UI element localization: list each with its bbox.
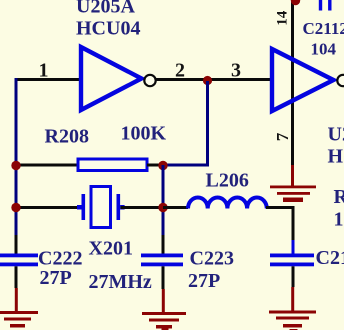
capacitor C222 plates — [0, 254, 38, 258]
ground under C222 — [0, 311, 38, 328]
junction dot node A row1 — [11, 161, 20, 170]
wire R208 left lead — [16, 164, 78, 167]
capacitor C223 plates — [141, 254, 183, 258]
inverter U205A output bubble — [144, 75, 155, 86]
ground pin7 — [270, 186, 316, 203]
svg-text:C212: C212 — [316, 247, 344, 269]
ground stem pin7 — [291, 165, 294, 186]
wire crystal right lead — [121, 206, 164, 209]
svg-text:R2: R2 — [334, 186, 344, 208]
svg-text:HCU04: HCU04 — [76, 18, 140, 40]
wire output node B horizontal — [156, 78, 272, 81]
ground under C212 — [269, 311, 316, 330]
wire C222 bottom lead — [15, 266, 18, 288]
svg-text:L206: L206 — [206, 170, 249, 192]
svg-text:C2112: C2112 — [303, 19, 344, 38]
svg-text:U205A: U205A — [76, 0, 135, 18]
svg-text:HCU04: HCU04 — [328, 146, 344, 168]
op-amp U205B inverter triangle — [272, 49, 334, 111]
svg-text:27MHz: 27MHz — [89, 271, 152, 293]
wire node B vertical jog — [163, 81, 208, 165]
svg-text:10: 10 — [334, 209, 344, 231]
resistor R208 body — [78, 159, 147, 171]
svg-text:104: 104 — [311, 40, 337, 59]
wire C223 bottom lead — [162, 266, 165, 289]
svg-text:27P: 27P — [188, 270, 220, 292]
crystal X201 body — [91, 187, 111, 228]
op-amp U205A inverter triangle — [81, 47, 142, 110]
svg-text:27P: 27P — [40, 267, 72, 289]
ground under C223 — [142, 312, 186, 330]
crystal X201 right plate — [117, 194, 121, 220]
junction dot node A row2 — [11, 203, 20, 212]
inverter U205B output bubble partial — [337, 75, 344, 86]
svg-text:C223: C223 — [190, 248, 234, 270]
capacitor C211 plates top — [319, 0, 322, 11]
junction dot node B row2 — [158, 203, 167, 212]
wire crystal left lead — [16, 206, 81, 209]
svg-text:U205B: U205B — [328, 124, 344, 146]
wire R208 right lead — [147, 164, 163, 167]
svg-text:100K: 100K — [121, 123, 167, 145]
svg-text:7: 7 — [273, 132, 292, 141]
wire inductor right lead — [266, 208, 295, 241]
ground stem C223 — [162, 289, 165, 312]
wire C212 top lead blue — [292, 240, 295, 254]
ground stem C212 — [291, 287, 294, 311]
junction dot node B row1 — [158, 161, 167, 170]
svg-text:14: 14 — [275, 10, 291, 26]
inductor L206 — [188, 198, 267, 209]
wire C212 bottom lead — [292, 266, 295, 287]
wire mid rail vertical node B — [162, 165, 165, 235]
svg-text:X201: X201 — [89, 238, 133, 260]
node B junction dot — [203, 76, 212, 85]
crystal X201 left plate — [82, 194, 86, 220]
junction dot top — [291, 0, 300, 5]
wire left rail vertical node A — [15, 78, 18, 235]
ground stem C222 — [15, 288, 18, 311]
svg-text:1: 1 — [39, 60, 49, 82]
wire inductor left lead — [163, 206, 188, 209]
wire pin1 horizontal — [15, 78, 80, 81]
power pin line 14-7 vertical — [291, 0, 294, 165]
svg-text:R208: R208 — [45, 126, 89, 148]
capacitor C212 plates — [270, 254, 314, 258]
